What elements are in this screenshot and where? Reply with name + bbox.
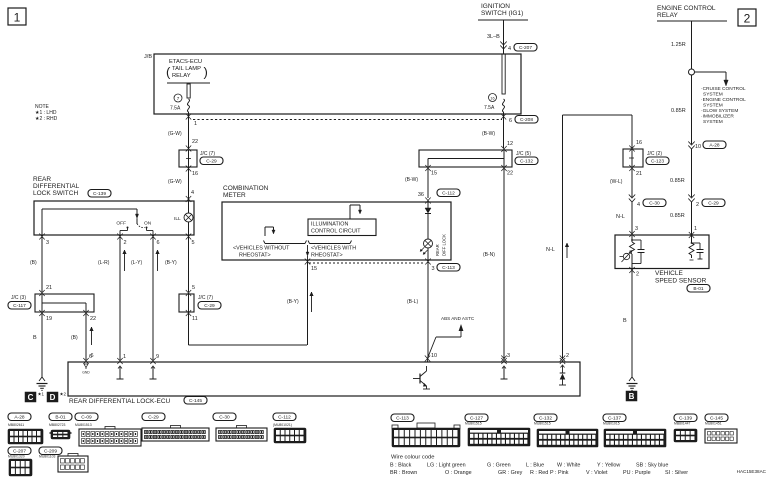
svg-text:A-28: A-28 — [14, 415, 24, 421]
svg-text:CONTROL CIRCUIT: CONTROL CIRCUIT — [311, 229, 361, 235]
svg-text:TAIL LAMP: TAIL LAMP — [172, 66, 201, 72]
svg-text:DIFF LOCK: DIFF LOCK — [442, 234, 447, 256]
svg-text:HAC15E38AC: HAC15E38AC — [737, 469, 767, 474]
svg-text:J/C (2): J/C (2) — [647, 151, 662, 157]
svg-text:22: 22 — [192, 139, 198, 145]
svg-text:G : Green: G : Green — [487, 463, 511, 469]
svg-text:B: B — [623, 318, 627, 324]
svg-text:RHEOSTAT>: RHEOSTAT> — [239, 253, 271, 259]
svg-text:ON: ON — [144, 221, 152, 227]
svg-text:B-01: B-01 — [55, 415, 65, 421]
svg-text:C-113: C-113 — [396, 416, 409, 422]
svg-text:SPEED SENSOR: SPEED SENSOR — [655, 278, 707, 285]
svg-text:(G-W): (G-W) — [168, 179, 182, 185]
svg-text:ILL: ILL — [174, 216, 181, 222]
svg-text:MB801447: MB801447 — [674, 422, 691, 426]
svg-text:C-112: C-112 — [278, 415, 291, 421]
svg-text:MB802611: MB802611 — [8, 423, 24, 427]
svg-text:·IMMOBILIZER: ·IMMOBILIZER — [701, 114, 734, 120]
svg-text:5: 5 — [192, 240, 195, 246]
svg-text:15: 15 — [431, 171, 437, 177]
svg-text:ILLUMINATION: ILLUMINATION — [311, 222, 348, 228]
svg-text:★2 : RHD: ★2 : RHD — [35, 116, 58, 122]
svg-text:C-30: C-30 — [219, 415, 230, 421]
svg-text:SYSTEM: SYSTEM — [703, 92, 723, 98]
svg-text:V : Violet: V : Violet — [586, 470, 608, 476]
svg-text:16: 16 — [636, 140, 642, 146]
svg-text:MU801103: MU801103 — [39, 455, 55, 459]
svg-text:OFF: OFF — [116, 221, 126, 227]
svg-text:2: 2 — [744, 12, 751, 26]
svg-text:1: 1 — [14, 11, 21, 25]
svg-text:0.85R: 0.85R — [670, 213, 685, 219]
svg-text:D: D — [50, 393, 56, 402]
svg-text:J/C (5): J/C (5) — [516, 151, 531, 157]
svg-text:11: 11 — [192, 316, 198, 322]
svg-text:B: B — [33, 335, 37, 341]
svg-text:7.5A: 7.5A — [170, 106, 181, 112]
svg-text:C-09: C-09 — [81, 415, 92, 421]
svg-text:(W-L): (W-L) — [610, 179, 623, 185]
svg-text:MU801015: MU801015 — [603, 422, 620, 426]
svg-text:Wire colour code: Wire colour code — [391, 455, 435, 461]
svg-text:2: 2 — [566, 353, 569, 359]
svg-text:A-28: A-28 — [709, 143, 719, 149]
svg-text:W : White: W : White — [557, 463, 580, 469]
svg-text:19: 19 — [46, 316, 52, 322]
svg-text:4: 4 — [508, 46, 511, 52]
svg-text:C-113: C-113 — [442, 265, 455, 271]
svg-text:0.85R: 0.85R — [671, 108, 686, 114]
svg-text:10: 10 — [431, 353, 437, 359]
svg-text:(L-Y): (L-Y) — [131, 260, 142, 266]
svg-text:ETACS-ECU: ETACS-ECU — [169, 59, 202, 65]
svg-text:MU801515: MU801515 — [465, 422, 482, 426]
svg-text:J/C (3): J/C (3) — [11, 295, 26, 301]
svg-text:RHEOSTAT>: RHEOSTAT> — [311, 253, 343, 259]
svg-text:R : Red: R : Red — [530, 470, 548, 476]
svg-text:5: 5 — [192, 285, 195, 291]
svg-text:P : Pink: P : Pink — [550, 470, 569, 476]
svg-text:B : Black: B : Black — [390, 463, 412, 469]
svg-text:15: 15 — [311, 266, 317, 272]
svg-text:4: 4 — [637, 202, 640, 208]
svg-text:(MU801021): (MU801021) — [273, 423, 292, 427]
svg-text:2: 2 — [124, 240, 127, 246]
svg-text:(B): (B) — [71, 335, 78, 341]
svg-text:C-123: C-123 — [651, 159, 664, 165]
svg-text:B: B — [629, 392, 635, 401]
svg-text:N-L: N-L — [616, 214, 625, 220]
svg-text:1: 1 — [694, 226, 697, 232]
svg-text:4: 4 — [191, 190, 194, 196]
svg-text:21: 21 — [636, 171, 642, 177]
svg-text:(B-N): (B-N) — [483, 252, 495, 258]
svg-text:N-L: N-L — [546, 247, 555, 253]
svg-text:7: 7 — [177, 96, 180, 101]
svg-text:(B): (B) — [30, 260, 37, 266]
svg-text:C-30: C-30 — [649, 201, 660, 207]
svg-text:MU801451: MU801451 — [705, 422, 722, 426]
svg-text:COMBINATION: COMBINATION — [223, 185, 269, 192]
svg-text:(L-R): (L-R) — [98, 260, 110, 266]
svg-text:MU801320: MU801320 — [8, 455, 25, 459]
svg-text:C-29: C-29 — [708, 201, 719, 207]
svg-text:ENGINE CONTROL: ENGINE CONTROL — [657, 5, 716, 12]
svg-text:C-29: C-29 — [206, 159, 217, 165]
svg-text:GR : Grey: GR : Grey — [498, 470, 523, 476]
svg-text:(B-Y): (B-Y) — [287, 299, 299, 305]
svg-text:SYSTEM: SYSTEM — [703, 119, 723, 125]
svg-text:6: 6 — [509, 118, 512, 124]
svg-text:10: 10 — [695, 144, 701, 150]
svg-text:ABS AND ASTC: ABS AND ASTC — [441, 316, 475, 321]
svg-text:2: 2 — [696, 202, 699, 208]
svg-text:(B-L): (B-L) — [407, 299, 418, 305]
svg-text:22: 22 — [90, 316, 96, 322]
svg-text:(G-W): (G-W) — [168, 131, 182, 137]
svg-text:·ENGINE CONTROL: ·ENGINE CONTROL — [701, 97, 746, 103]
svg-text:C-29: C-29 — [148, 415, 159, 421]
svg-text:6: 6 — [157, 240, 160, 246]
svg-text:LG : Light green: LG : Light green — [427, 463, 466, 469]
svg-text:MB802723: MB802723 — [49, 423, 66, 427]
svg-text:C-112: C-112 — [442, 191, 455, 197]
svg-text:1.25R: 1.25R — [671, 42, 686, 48]
svg-text:3: 3 — [635, 226, 638, 232]
svg-text:·CRUISE CONTROL: ·CRUISE CONTROL — [701, 86, 746, 92]
svg-text:MU801515: MU801515 — [534, 422, 551, 426]
svg-text:O : Orange: O : Orange — [445, 470, 472, 476]
svg-text:16: 16 — [192, 171, 198, 177]
svg-text:2: 2 — [636, 272, 639, 278]
svg-text:DIFFERENTIAL: DIFFERENTIAL — [33, 183, 80, 190]
svg-text:6: 6 — [89, 354, 92, 360]
svg-text:7.5A: 7.5A — [484, 105, 495, 111]
svg-text:GND: GND — [82, 371, 90, 375]
svg-text:C-117: C-117 — [13, 303, 26, 309]
svg-text:C-29: C-29 — [204, 303, 215, 309]
svg-text:IGNITION: IGNITION — [481, 3, 510, 10]
svg-text:★2: ★2 — [60, 392, 67, 397]
svg-text:★1: ★1 — [38, 392, 45, 397]
svg-text:RELAY: RELAY — [172, 73, 191, 79]
svg-text:C-139: C-139 — [93, 191, 106, 197]
svg-text:Y : Yellow: Y : Yellow — [597, 463, 620, 469]
svg-text:BR : Brown: BR : Brown — [390, 470, 417, 476]
svg-text:3: 3 — [432, 266, 435, 272]
svg-text:0.85R: 0.85R — [670, 178, 685, 184]
svg-text:METER: METER — [223, 192, 246, 199]
svg-text:·GLOW SYSTEM: ·GLOW SYSTEM — [701, 108, 738, 114]
svg-text:LOCK SWITCH: LOCK SWITCH — [33, 190, 78, 197]
svg-text:1: 1 — [194, 121, 197, 127]
svg-text:SB : Sky blue: SB : Sky blue — [636, 463, 668, 469]
svg-text:REAR: REAR — [435, 244, 440, 256]
svg-text:21: 21 — [46, 285, 52, 291]
svg-text:3: 3 — [507, 353, 510, 359]
svg-text:REAR: REAR — [33, 176, 51, 183]
svg-text:SYSTEM: SYSTEM — [703, 103, 723, 109]
svg-text:J/C (7): J/C (7) — [198, 295, 213, 301]
svg-text:C-132: C-132 — [520, 159, 533, 165]
svg-text:22: 22 — [507, 171, 513, 177]
svg-text:L : Blue: L : Blue — [526, 463, 544, 469]
svg-text:3: 3 — [46, 240, 49, 246]
svg-text:): ) — [204, 65, 208, 80]
svg-text:C: C — [28, 393, 34, 402]
svg-text:J/B: J/B — [144, 54, 152, 60]
svg-text:MU801513: MU801513 — [75, 423, 92, 427]
svg-text:C-145: C-145 — [189, 398, 202, 404]
svg-text:<VEHICLES WITH: <VEHICLES WITH — [311, 246, 356, 252]
svg-text:(B-Y): (B-Y) — [165, 260, 177, 266]
svg-text:REAR DIFFERENTIAL LOCK-ECU: REAR DIFFERENTIAL LOCK-ECU — [69, 398, 171, 405]
svg-text:(B-W): (B-W) — [405, 177, 418, 183]
svg-text:16: 16 — [490, 97, 494, 101]
svg-text:SWITCH (IG1): SWITCH (IG1) — [481, 10, 523, 17]
svg-text:(: ( — [166, 65, 171, 80]
svg-text:36: 36 — [418, 192, 424, 198]
svg-text:B-01: B-01 — [693, 286, 703, 292]
svg-text:12: 12 — [507, 141, 513, 147]
svg-text:<VEHICLES WITHOUT: <VEHICLES WITHOUT — [233, 246, 290, 252]
svg-text:1: 1 — [123, 354, 126, 360]
svg-text:PU : Purple: PU : Purple — [623, 470, 651, 476]
svg-text:SI : Silver: SI : Silver — [665, 470, 688, 476]
svg-text:C-208: C-208 — [520, 117, 533, 123]
svg-text:(B-W): (B-W) — [482, 131, 495, 137]
svg-text:J/C (7): J/C (7) — [200, 151, 215, 157]
svg-text:C-207: C-207 — [519, 45, 532, 51]
svg-text:3L–B: 3L–B — [487, 34, 500, 40]
svg-text:9: 9 — [156, 354, 159, 360]
svg-text:VEHICLE: VEHICLE — [655, 270, 683, 277]
svg-text:RELAY: RELAY — [657, 12, 678, 19]
